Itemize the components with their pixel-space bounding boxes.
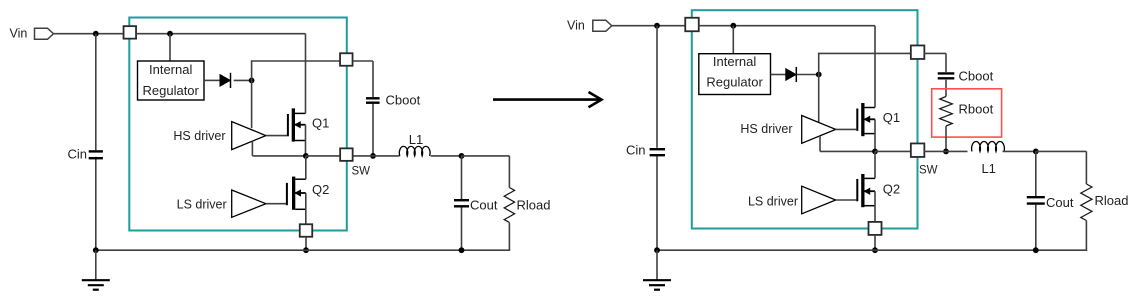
- label L1 (left circuit): [409, 132, 423, 147]
- label SW (right circuit): [919, 165, 938, 177]
- wire GND pin to ground rail (left circuit): [305, 237, 307, 250]
- label SW (left circuit): [352, 166, 371, 178]
- wire Rboot to SW wire (right circuit): [945, 126, 947, 151]
- transistor Q1 gate bar (right circuit): [856, 109, 858, 131]
- svg-text:Rload: Rload: [1095, 193, 1129, 208]
- transistor Q2 source stub (left circuit): [295, 208, 306, 210]
- block Internal Regulator (right circuit): [699, 54, 771, 95]
- wire VIN pin to Q1 drain rail (right circuit): [698, 25, 875, 27]
- wire output node to Rload corner (right circuit): [1036, 151, 1087, 184]
- svg-text:Rload: Rload: [517, 198, 551, 213]
- label LS driver (right circuit): [748, 195, 798, 209]
- label LS driver (left circuit): [177, 198, 227, 212]
- wire L1 to output node (right circuit): [1003, 150, 1036, 152]
- wire L1 to output node (left circuit): [431, 155, 462, 157]
- label Q2 (left circuit): [312, 182, 329, 197]
- wire output node down to Cout (right circuit): [1035, 151, 1037, 196]
- node Cout/ground junction (right circuit): [1033, 247, 1039, 253]
- wire LS driver output to Q2 gate (left circuit): [266, 203, 287, 205]
- svg-text:SW: SW: [919, 165, 938, 177]
- label Cin (right circuit): [626, 143, 646, 158]
- amplifier LS driver (buffer triangle) (left circuit): [232, 190, 266, 217]
- transistor Q2 source stub (right circuit): [865, 205, 876, 207]
- wire Vin tag to VIN pin (right circuit): [612, 25, 686, 27]
- wire Cout to ground rail (left circuit): [461, 208, 463, 251]
- IC boundary box (teal) (right circuit): [692, 10, 918, 228]
- pin GND (square on IC bottom edge) (right circuit): [869, 222, 882, 235]
- transistor Q2 channel bar (left circuit): [292, 177, 295, 210]
- transistor Q1 body arrow (right circuit): [865, 117, 876, 123]
- svg-text:Q1: Q1: [312, 116, 329, 131]
- diode D1 (bootstrap) (right circuit): [786, 67, 797, 82]
- label Cout (right circuit): [1046, 195, 1074, 210]
- node Rboot/SW junction (right circuit): [943, 149, 949, 155]
- wire output node down to Cout (left circuit): [461, 156, 463, 199]
- wire SW node to SW pin (right circuit): [875, 150, 911, 152]
- amplifier HS driver (buffer triangle) (left circuit): [232, 122, 266, 150]
- svg-text:Cout: Cout: [470, 198, 498, 213]
- capacitor Cin (left circuit): [89, 151, 103, 158]
- node Vin / Cin junction (left circuit): [93, 31, 99, 37]
- transistor Q2 channel bar (right circuit): [861, 174, 864, 207]
- transistor Q2 body arrow (left circuit): [295, 190, 306, 196]
- pin VIN (square on IC left edge) (left circuit): [124, 26, 137, 39]
- node GND rail junction (right circuit): [872, 247, 878, 253]
- wire Cboot to Rboot (right circuit): [945, 80, 947, 97]
- ground symbol (left circuit): [82, 250, 110, 290]
- wire Vin node down to Cin (left circuit): [95, 34, 97, 151]
- amplifier LS driver (buffer triangle) (right circuit): [802, 186, 836, 214]
- label HS driver (right circuit): [740, 122, 792, 136]
- IC boundary box (teal) (left circuit): [129, 18, 346, 231]
- pin SW (square on IC right edge) (right circuit): [911, 143, 925, 157]
- resistor Rboot (right circuit): [940, 97, 953, 127]
- node Cin/ground junction (right circuit): [654, 247, 660, 253]
- label Rload (left circuit): [517, 198, 551, 213]
- svg-text:L1: L1: [981, 161, 995, 176]
- wire Vin tag to VIN pin (left circuit): [54, 33, 124, 35]
- capacitor Cout (left circuit): [454, 200, 469, 206]
- wire Cin to ground rail (right circuit): [656, 155, 658, 250]
- capacitor Cboot (left circuit): [366, 98, 380, 102]
- node Vout junction (left circuit): [459, 153, 465, 159]
- ground rail (bottom wire) (left circuit): [96, 249, 462, 251]
- label Q2 (right circuit): [883, 182, 900, 197]
- resistor Rload (left circuit): [504, 188, 514, 223]
- node BOOT junction (right circuit): [816, 72, 822, 78]
- svg-text:Vin: Vin: [10, 27, 28, 41]
- wire BOOT node up and right to BOOT pin (right circuit): [818, 53, 911, 74]
- wire Internal Regulator to diode D1 (right circuit): [771, 74, 786, 76]
- transistor Q1 channel bar (left circuit): [292, 108, 295, 141]
- transistor Q1 channel bar (right circuit): [861, 103, 864, 136]
- wire Cboot to SW wire (left circuit): [372, 104, 374, 156]
- svg-text:Vin: Vin: [567, 19, 585, 33]
- wire BOOT node down to HS driver (right circuit): [818, 75, 820, 123]
- svg-text:LS driver: LS driver: [177, 198, 227, 212]
- node Cout/ground junction (left circuit): [459, 247, 465, 253]
- label Q1 (right circuit): [883, 110, 900, 125]
- input label Vin (right circuit): [567, 19, 585, 33]
- node internal Vin branch (right circuit): [730, 23, 736, 29]
- resistor Rload (right circuit): [1081, 184, 1092, 221]
- pin BOOT (square on IC right edge) (right circuit): [911, 45, 925, 59]
- input label Vin (left circuit): [10, 27, 28, 41]
- wire SW pin to L1 (left circuit): [353, 155, 400, 157]
- wire Q1 drain up to Vin rail (left circuit): [305, 34, 307, 114]
- wire diode to BOOT node (left circuit): [234, 79, 252, 81]
- wire output node to Rload corner (left circuit): [462, 156, 510, 188]
- transistor Q1 body arrow (left circuit): [295, 122, 306, 128]
- wire Q1 source down to SW (right circuit): [874, 119, 876, 151]
- label Cboot (left circuit): [386, 93, 421, 108]
- wire Q2 drain up to SW node (right circuit): [874, 151, 876, 178]
- ground rail (bottom wire) (right circuit): [657, 249, 1036, 251]
- highlight box around Rboot (red) (right circuit): [932, 89, 1002, 137]
- node Vout junction (right circuit): [1033, 149, 1039, 155]
- input port tag Vin (right circuit): [593, 20, 612, 31]
- svg-text:Regulator: Regulator: [143, 83, 200, 98]
- label Rboot (right circuit): [959, 102, 994, 117]
- node internal Vin branch (left circuit): [167, 31, 173, 37]
- inductor L1 (left circuit): [399, 146, 430, 156]
- transistor Q2 gate bar (right circuit): [856, 179, 858, 201]
- svg-text:Q1: Q1: [883, 110, 900, 125]
- node Vin / Cin junction (right circuit): [654, 23, 660, 29]
- svg-text:Q2: Q2: [883, 182, 900, 197]
- wire Q2 source down to GND pin (left circuit): [305, 193, 307, 225]
- wire HS driver output to Q1 gate (right circuit): [836, 128, 857, 130]
- svg-text:Regulator: Regulator: [706, 75, 763, 90]
- wire Q2 drain up to SW node (left circuit): [305, 156, 307, 179]
- wire GND pin to ground rail (right circuit): [874, 235, 876, 250]
- transistor Q1 drain stub (left circuit): [295, 112, 306, 114]
- capacitor Cout (right circuit): [1027, 197, 1045, 203]
- wire Cout to ground rail (right circuit): [1035, 205, 1037, 251]
- pin VIN (square on IC left edge) (right circuit): [685, 18, 699, 32]
- wire BOOT node down to HS driver (left circuit): [251, 80, 253, 128]
- wire Rload to ground rail (right circuit): [1036, 221, 1087, 251]
- svg-text:SW: SW: [352, 166, 371, 178]
- input port tag Vin (left circuit): [35, 28, 54, 39]
- svg-text:HS driver: HS driver: [173, 129, 225, 143]
- label HS driver (left circuit): [173, 129, 225, 143]
- wire LS driver output to Q2 gate (right circuit): [836, 199, 857, 201]
- diode D1 (bootstrap) (left circuit): [220, 73, 231, 88]
- node SW junction (Q1/Q2) (right circuit): [872, 149, 878, 155]
- wire HS driver return to SW (left circuit): [252, 141, 305, 156]
- svg-text:HS driver: HS driver: [740, 122, 792, 136]
- wire Internal Regulator to diode D1 (left circuit): [204, 79, 220, 81]
- node Cboot/SW junction (left circuit): [370, 153, 376, 159]
- wire Q1 source down to SW (left circuit): [305, 125, 307, 156]
- wire VIN pin to Q1 drain rail (left circuit): [136, 33, 306, 35]
- inductor L1 (right circuit): [972, 141, 1005, 151]
- svg-text:Q2: Q2: [312, 182, 329, 197]
- wire Vin node down to Cin (right circuit): [656, 26, 658, 148]
- transistor Q2 body arrow (right circuit): [865, 188, 876, 194]
- transistor Q2 gate bar (left circuit): [286, 183, 288, 205]
- wire SW pin to L1 (right circuit): [924, 150, 968, 152]
- node GND rail junction (left circuit): [303, 247, 309, 253]
- wire HS driver output to Q1 gate (left circuit): [266, 135, 287, 137]
- wire BOOT pin to Cboot (right circuit): [924, 53, 946, 72]
- wire down to Internal Regulator (left circuit): [169, 34, 171, 61]
- node SW junction (Q1/Q2) (left circuit): [303, 153, 309, 159]
- label L1 (right circuit): [981, 161, 995, 176]
- node BOOT junction (left circuit): [249, 78, 255, 84]
- capacitor Cin (right circuit): [650, 149, 665, 155]
- transistor Q2 drain stub (right circuit): [865, 177, 876, 179]
- pin SW (square on IC right edge) (left circuit): [340, 148, 353, 161]
- svg-text:Cboot: Cboot: [386, 93, 421, 108]
- label Rload (right circuit): [1095, 193, 1129, 208]
- wire BOOT node up and right to BOOT pin (left circuit): [251, 61, 340, 80]
- wire diode to BOOT node (right circuit): [797, 74, 819, 76]
- svg-text:Internal: Internal: [149, 62, 192, 77]
- svg-text:Rboot: Rboot: [959, 102, 994, 117]
- wire BOOT pin to Cboot (left circuit): [353, 61, 373, 97]
- svg-text:LS driver: LS driver: [748, 195, 798, 209]
- svg-text:Cin: Cin: [67, 147, 87, 162]
- transistor Q1 source stub (right circuit): [865, 133, 876, 135]
- label Cboot (right circuit): [959, 69, 994, 84]
- transistor Q1 gate bar (left circuit): [287, 114, 289, 136]
- svg-text:L1: L1: [409, 132, 423, 147]
- pin BOOT (square on IC right edge) (left circuit): [340, 53, 353, 66]
- svg-text:Cout: Cout: [1046, 195, 1074, 210]
- amplifier HS driver (buffer triangle) (right circuit): [802, 116, 836, 144]
- svg-text:Cin: Cin: [626, 143, 646, 158]
- label Cout (left circuit): [470, 198, 498, 213]
- label Q1 (left circuit): [312, 116, 329, 131]
- block Internal Regulator (left circuit): [138, 61, 205, 100]
- label Cin (left circuit): [67, 147, 87, 162]
- capacitor Cboot (right circuit): [938, 73, 955, 78]
- ground symbol (right circuit): [643, 250, 671, 290]
- pin GND (square on IC bottom edge) (left circuit): [300, 224, 313, 237]
- wire Cin to ground rail (left circuit): [95, 157, 97, 250]
- wire Q2 source down to GND pin (right circuit): [874, 191, 876, 222]
- transistor Q2 drain stub (left circuit): [295, 178, 306, 180]
- wire HS driver return to SW (right circuit): [820, 136, 875, 151]
- wire SW node to SW pin (left circuit): [306, 155, 340, 157]
- wire Rload to ground rail (left circuit): [462, 223, 511, 251]
- svg-text:Cboot: Cboot: [959, 69, 994, 84]
- wire down to Internal Regulator (right circuit): [732, 26, 734, 54]
- node Cin/ground junction (left circuit): [93, 247, 99, 253]
- transistor Q1 source stub (left circuit): [295, 140, 306, 142]
- arrow (left circuit becomes right circuit): [493, 92, 602, 107]
- svg-text:Internal: Internal: [713, 54, 756, 69]
- transistor Q1 drain stub (right circuit): [865, 107, 876, 109]
- wire Q1 drain up to Vin rail (right circuit): [874, 26, 876, 108]
